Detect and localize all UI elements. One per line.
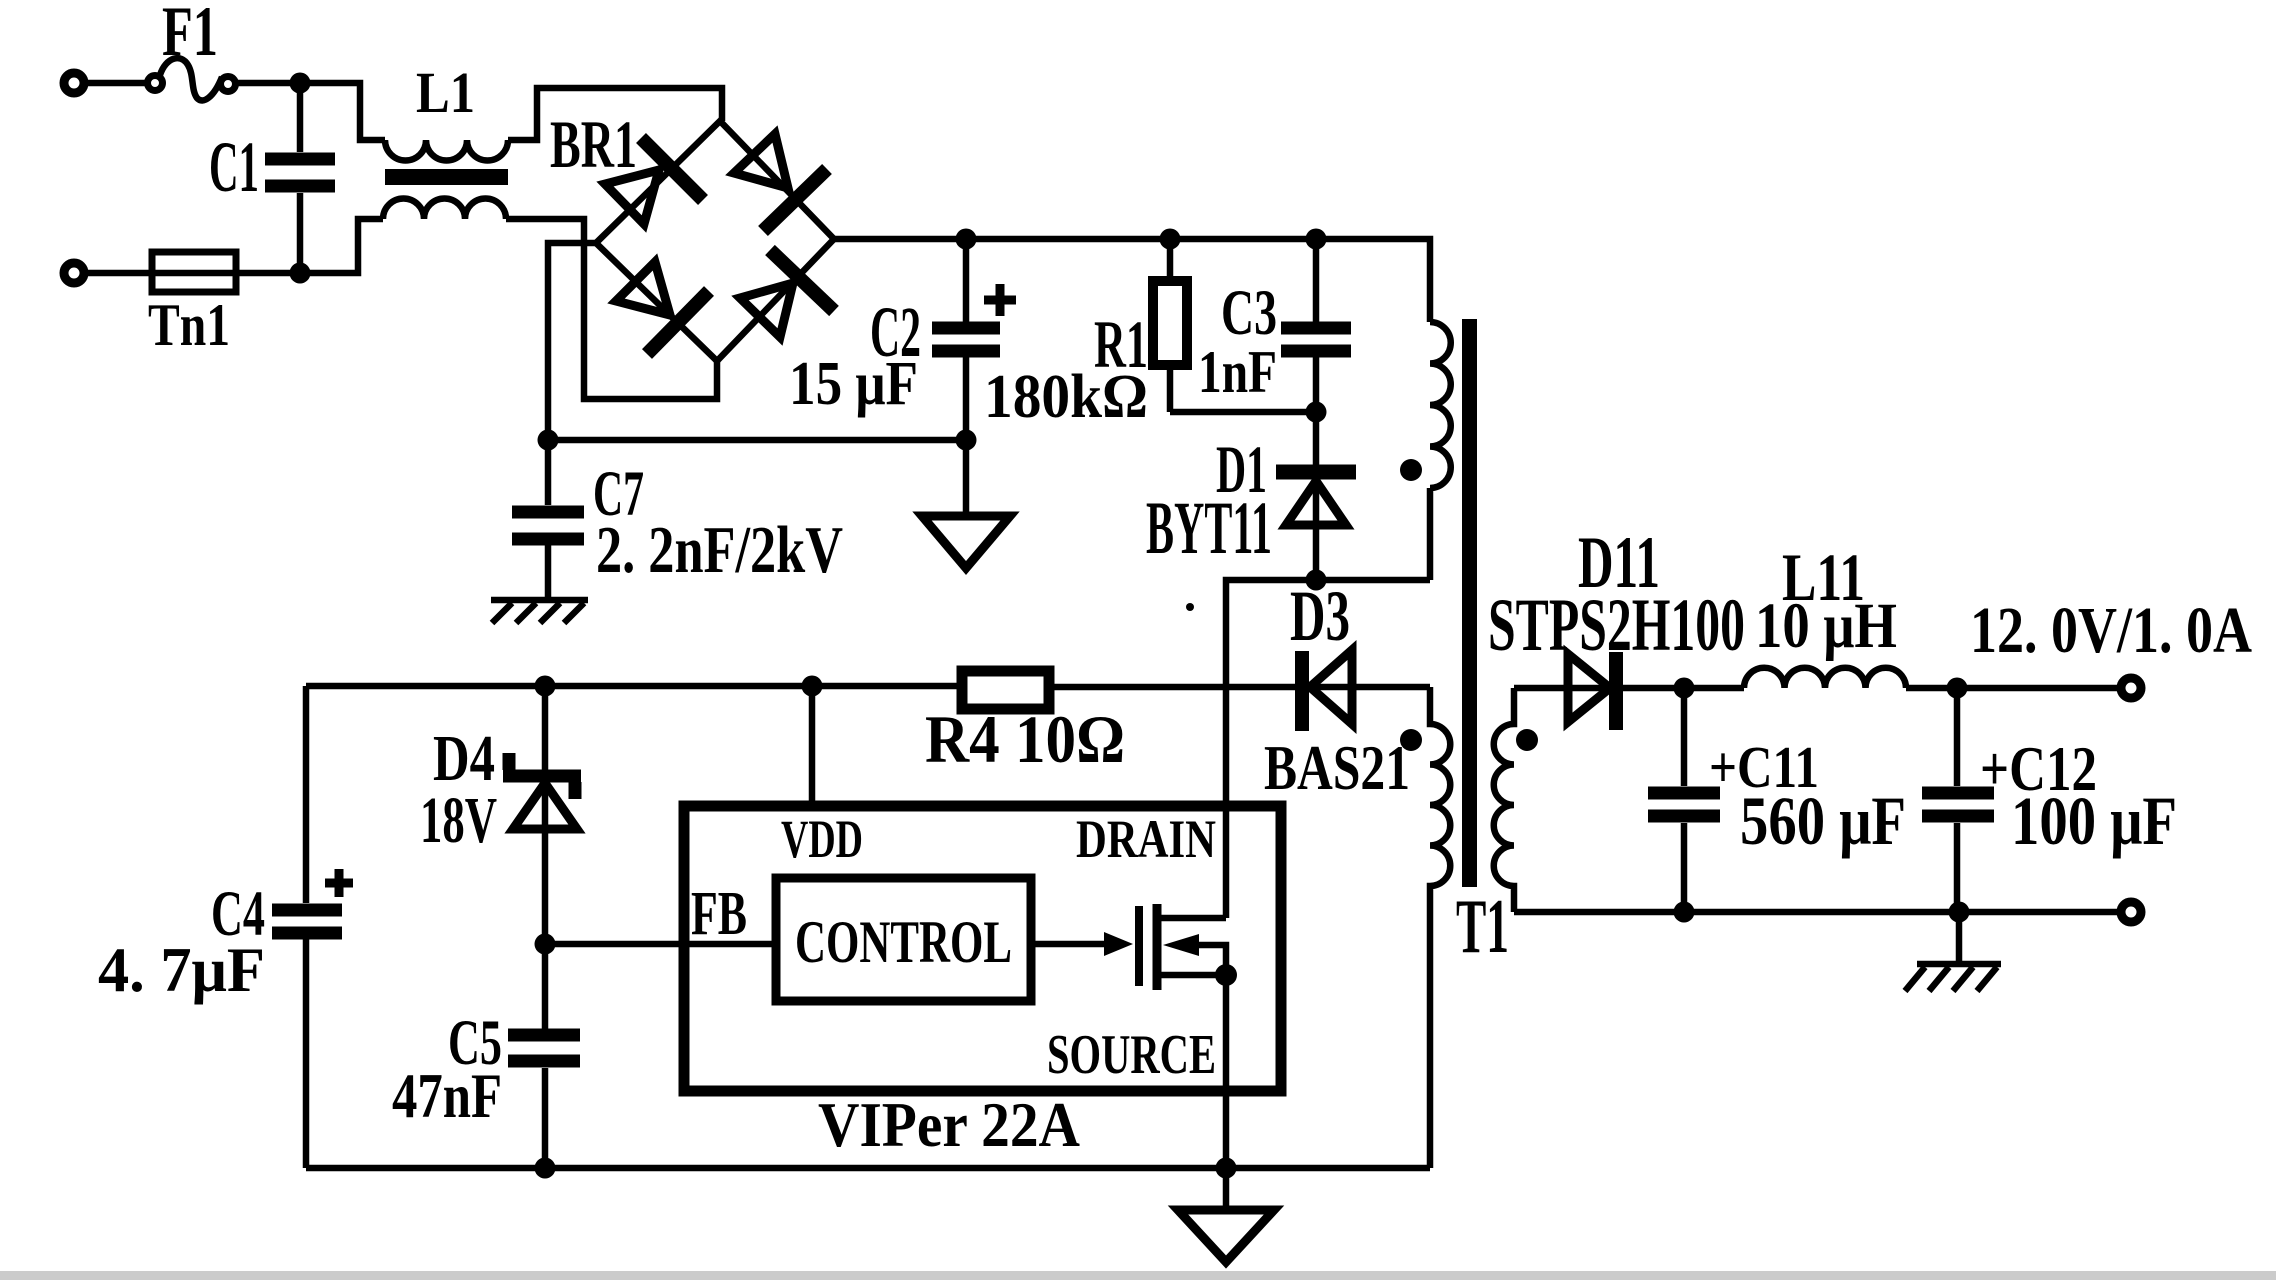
node source ground xyxy=(1216,1158,1237,1179)
svg-text:DRAIN: DRAIN xyxy=(1076,809,1216,869)
svg-text:4. 7μF: 4. 7μF xyxy=(98,935,265,1005)
node bus C2 xyxy=(956,229,977,250)
diode D11 xyxy=(1568,652,1616,730)
capacitor C12 polarized xyxy=(1922,688,1994,912)
wire input bottom through Tn1 xyxy=(88,270,300,277)
wire node to L1 top xyxy=(300,83,385,140)
wire bridge minus to C7 node xyxy=(548,243,596,440)
svg-text:12. 0V/1. 0A: 12. 0V/1. 0A xyxy=(1970,594,2252,667)
node C12 top xyxy=(1947,678,1968,699)
zener D4 xyxy=(503,686,581,944)
wire fuse to node xyxy=(236,80,300,87)
svg-text:BAS21: BAS21 xyxy=(1264,733,1410,803)
terminal output minus xyxy=(2121,902,2141,922)
wire VDD pin xyxy=(809,686,816,806)
BR1 diode bottom-left xyxy=(616,262,709,354)
svg-text:D3: D3 xyxy=(1290,576,1350,656)
svg-text:CONTROL: CONTROL xyxy=(795,909,1012,975)
inductor L1 top winding xyxy=(385,140,508,161)
svg-text:100 μF: 100 μF xyxy=(2011,783,2177,859)
inductor L11 xyxy=(1744,668,1906,688)
BR1 diode top-left xyxy=(605,138,703,224)
wire L11 to output terminal xyxy=(1906,685,2117,692)
wire return line y440 xyxy=(548,437,966,444)
node R1 C3 D1 xyxy=(1306,402,1327,423)
svg-text:F1: F1 xyxy=(162,0,218,71)
svg-text:18V: 18V xyxy=(420,784,497,857)
resistor R1 xyxy=(1153,239,1187,412)
svg-text:BR1: BR1 xyxy=(550,106,637,182)
earth arrow under C2 xyxy=(922,440,1010,568)
svg-text:15 μF: 15 μF xyxy=(789,350,918,418)
BR1 diode bottom-right xyxy=(740,250,834,337)
transformer T1 core bar xyxy=(1462,319,1477,887)
resistor R4 xyxy=(962,671,1430,709)
svg-text:R4 10Ω: R4 10Ω xyxy=(925,701,1125,777)
node VDD D4 xyxy=(535,676,556,697)
node FB D4 C5 xyxy=(535,934,556,955)
terminal AC input top xyxy=(64,73,84,93)
svg-text:SOURCE: SOURCE xyxy=(1047,1024,1216,1086)
node bus C3 xyxy=(1306,229,1327,250)
node D1 drain line xyxy=(1306,570,1327,591)
wire L1 top to bridge top vertex xyxy=(508,88,722,140)
svg-text:VIPer 22A: VIPer 22A xyxy=(818,1090,1080,1160)
svg-text:2. 2nF/2kV: 2. 2nF/2kV xyxy=(596,513,843,587)
IC U1 VIPer22A box xyxy=(684,806,1281,1091)
phase dot secondary xyxy=(1516,729,1538,751)
CONTROL block xyxy=(776,878,1031,1001)
capacitor C11 polarized xyxy=(1648,688,1720,912)
wire FB line xyxy=(545,941,776,948)
ground hatched under C7 xyxy=(491,600,588,623)
thermistor Tn1 xyxy=(152,252,236,292)
svg-text:10 μH: 10 μH xyxy=(1755,590,1897,662)
diode D1 xyxy=(1276,412,1356,580)
transformer T1 primary winding xyxy=(1430,322,1451,580)
node junction Tn1/C1 xyxy=(290,263,311,284)
svg-text:T1: T1 xyxy=(1456,883,1509,969)
capacitor C4 polarized xyxy=(272,686,353,1168)
ground hatched output xyxy=(1905,912,2001,991)
inductor L1 bottom winding xyxy=(383,198,506,219)
BR1 diode top-right xyxy=(734,134,827,231)
terminal output plus xyxy=(2121,678,2141,698)
artifact dot xyxy=(1186,603,1194,611)
phase dot aux xyxy=(1400,729,1422,751)
wire secondary top to D11 xyxy=(1514,685,1744,692)
svg-text:FB: FB xyxy=(691,880,747,948)
scan strip bottom xyxy=(0,1271,2276,1280)
bridge rectifier BR1 diamond xyxy=(596,121,834,361)
wire L1 bottom to bridge bottom vertex xyxy=(506,219,717,399)
wire drain node line xyxy=(1226,580,1430,918)
svg-text:Tn1: Tn1 xyxy=(148,292,230,358)
svg-text:1nF: 1nF xyxy=(1198,339,1277,405)
node VDD pin xyxy=(802,676,823,697)
wire VDD bus xyxy=(306,683,962,690)
svg-text:L1: L1 xyxy=(416,60,475,125)
node C12 bottom ground xyxy=(1949,902,1970,923)
capacitor C1 xyxy=(265,83,335,273)
wire L1 bottom to node C1 xyxy=(300,219,383,273)
wire R1 to node C3D1 xyxy=(1170,409,1316,416)
svg-text:C1: C1 xyxy=(209,127,259,207)
phase dot primary xyxy=(1400,459,1422,481)
terminal AC input bottom xyxy=(64,263,84,283)
diode D3 xyxy=(1302,650,1352,731)
capacitor C3 xyxy=(1281,239,1351,412)
wire ground bus bottom xyxy=(306,1165,1430,1172)
svg-text:180kΩ: 180kΩ xyxy=(984,363,1148,431)
node C11 top xyxy=(1674,678,1695,699)
node C11 bottom xyxy=(1674,902,1695,923)
svg-text:VDD: VDD xyxy=(781,809,863,869)
transformer T1 aux winding xyxy=(1430,687,1450,1168)
MOSFET Q inside U1 xyxy=(1031,904,1237,1168)
fuse F1 xyxy=(148,58,236,100)
node under C2 xyxy=(956,430,977,451)
wire secondary bottom to output terminal xyxy=(1514,909,2117,916)
node C5 bottom xyxy=(535,1158,556,1179)
node C7 xyxy=(538,430,559,451)
node junction F1/C1 xyxy=(290,73,311,94)
svg-text:STPS2H100: STPS2H100 xyxy=(1488,584,1745,667)
node bus R1 xyxy=(1160,229,1181,250)
earth arrow source xyxy=(1178,1168,1274,1262)
svg-text:560 μF: 560 μF xyxy=(1740,783,1906,859)
wire HV bus xyxy=(834,239,1430,322)
transformer T1 secondary winding xyxy=(1494,688,1514,912)
svg-text:BYT11: BYT11 xyxy=(1146,487,1272,570)
wire input top to fuse xyxy=(88,80,146,87)
capacitor C7 xyxy=(512,440,584,600)
L1 core bar xyxy=(385,169,508,185)
svg-text:47nF: 47nF xyxy=(392,1061,502,1131)
capacitor C2 polarized xyxy=(932,239,1016,440)
capacitor C5 xyxy=(508,944,580,1168)
